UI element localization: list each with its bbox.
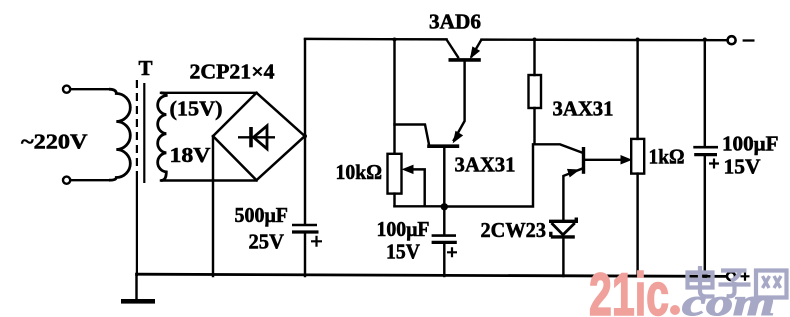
potentiometer RP1 wiper arrow <box>403 165 413 173</box>
junction dot rail x637 <box>636 38 640 42</box>
potentiometer RP2 1k body <box>631 139 644 174</box>
svg-text:3AX31: 3AX31 <box>553 97 614 121</box>
junction dot rail x394 <box>393 38 397 42</box>
junction dot bottom rail cap C3 <box>702 273 708 279</box>
svg-text:500μF: 500μF <box>235 203 289 227</box>
capacitor C3 100uF 15V (output) <box>693 147 718 154</box>
wire Q3 emitter to zener <box>563 169 581 220</box>
node A junction dot <box>441 203 448 210</box>
svg-text:2CP21×4: 2CP21×4 <box>190 60 276 84</box>
svg-text:~220V: ~220V <box>21 130 88 154</box>
capacitor C2 100uF 15V <box>432 236 457 243</box>
transformer T secondary winding <box>158 93 167 181</box>
wire secondary bottom to bridge bottom corner <box>161 179 257 181</box>
svg-text:3AD6: 3AD6 <box>429 10 481 34</box>
capacitor C1 500uF 25V <box>292 225 319 232</box>
svg-text:(15V): (15V) <box>170 97 223 121</box>
transformer T primary winding <box>109 89 130 180</box>
minus sign <box>743 39 755 41</box>
wire Q2 collector branch <box>395 125 430 145</box>
wire 10k pot bottom leg <box>393 194 395 207</box>
wire secondary top to bridge top corner <box>161 92 257 94</box>
junction dot rail x534 <box>533 38 537 42</box>
watermark wang char <box>756 271 787 298</box>
wire primary top terminal lead <box>70 88 109 90</box>
plus mark C3 <box>709 159 719 169</box>
transistor Q3 3AX31 (comparator) <box>568 147 584 176</box>
svg-text:18V: 18V <box>170 143 211 167</box>
wire 10k pot wiper to node A <box>409 169 425 206</box>
svg-text:25V: 25V <box>249 230 285 254</box>
zener diode 2CW23 <box>549 218 576 237</box>
wire node A horizontal to Q3 collector riser <box>395 144 534 206</box>
wire Q2 base down to node A and cap C2 <box>443 148 445 235</box>
potentiometer RP1 10k body <box>388 154 402 194</box>
wire primary bottom terminal lead <box>70 179 109 181</box>
wire bias vertical x=394.5 (rail to 10k pot top) <box>393 40 395 154</box>
bridge rectifier 2CP21x4 diamond <box>213 93 305 180</box>
transformer T core solid line <box>143 83 145 183</box>
resistor R1 (collector load) <box>529 75 542 108</box>
transistor Q1 3AD6 <box>447 40 482 60</box>
svg-text:21ic: 21ic <box>589 261 669 317</box>
wire cap C2 to bottom rail <box>443 243 445 276</box>
svg-text:2CW23: 2CW23 <box>481 218 547 242</box>
terminal AC top <box>63 86 70 93</box>
bridge inner diode symbol <box>238 126 275 149</box>
terminal output minus <box>728 36 736 44</box>
plus mark C1 <box>311 236 322 247</box>
junction dot rail x705 <box>703 38 707 42</box>
wire bridge right corner vertical (through 500uF) <box>304 40 306 277</box>
ground <box>121 299 155 304</box>
terminal AC bottom <box>63 177 70 184</box>
watermark zi char <box>719 271 751 297</box>
wire bridge left corner to bottom rail <box>212 136 214 276</box>
svg-text:100μF: 100μF <box>722 132 779 156</box>
svg-text:15V: 15V <box>724 155 761 179</box>
svg-text:3AX31: 3AX31 <box>455 153 516 177</box>
wire Q1 base / Q2 emitter lead <box>454 61 465 140</box>
svg-text:15V: 15V <box>386 240 420 264</box>
wire cap C3 verticals <box>704 40 706 277</box>
wire top rail right (3AD6 emitter to minus output) <box>482 38 728 41</box>
potentiometer RP2 wiper arrow <box>621 156 631 164</box>
wire zener to bottom rail <box>562 239 564 277</box>
svg-text:100μF: 100μF <box>377 217 430 241</box>
wire ground drop <box>135 276 137 299</box>
wire resistor R1 leads and Q3 collector <box>535 40 583 153</box>
transistor Q2 3AX31 (driver) <box>427 132 462 147</box>
svg-text:1kΩ: 1kΩ <box>649 145 685 169</box>
wire bottom rail <box>137 274 728 276</box>
svg-text:10kΩ: 10kΩ <box>336 160 383 184</box>
terminal output plus <box>727 272 735 280</box>
wire 1k pot verticals <box>636 40 638 277</box>
junction dot bridge right <box>303 134 307 138</box>
watermark dian char <box>688 266 715 297</box>
plus sign output <box>741 272 750 281</box>
watermark red dot <box>670 305 680 315</box>
wire top rail left (bridge + to 3AD6 collector) <box>305 38 447 41</box>
svg-text:T: T <box>139 56 153 80</box>
plus mark C2 <box>447 247 457 257</box>
wire Q3 base to 1k wiper <box>585 159 623 161</box>
transformer T core dashed line (grounded shield) <box>137 80 144 276</box>
